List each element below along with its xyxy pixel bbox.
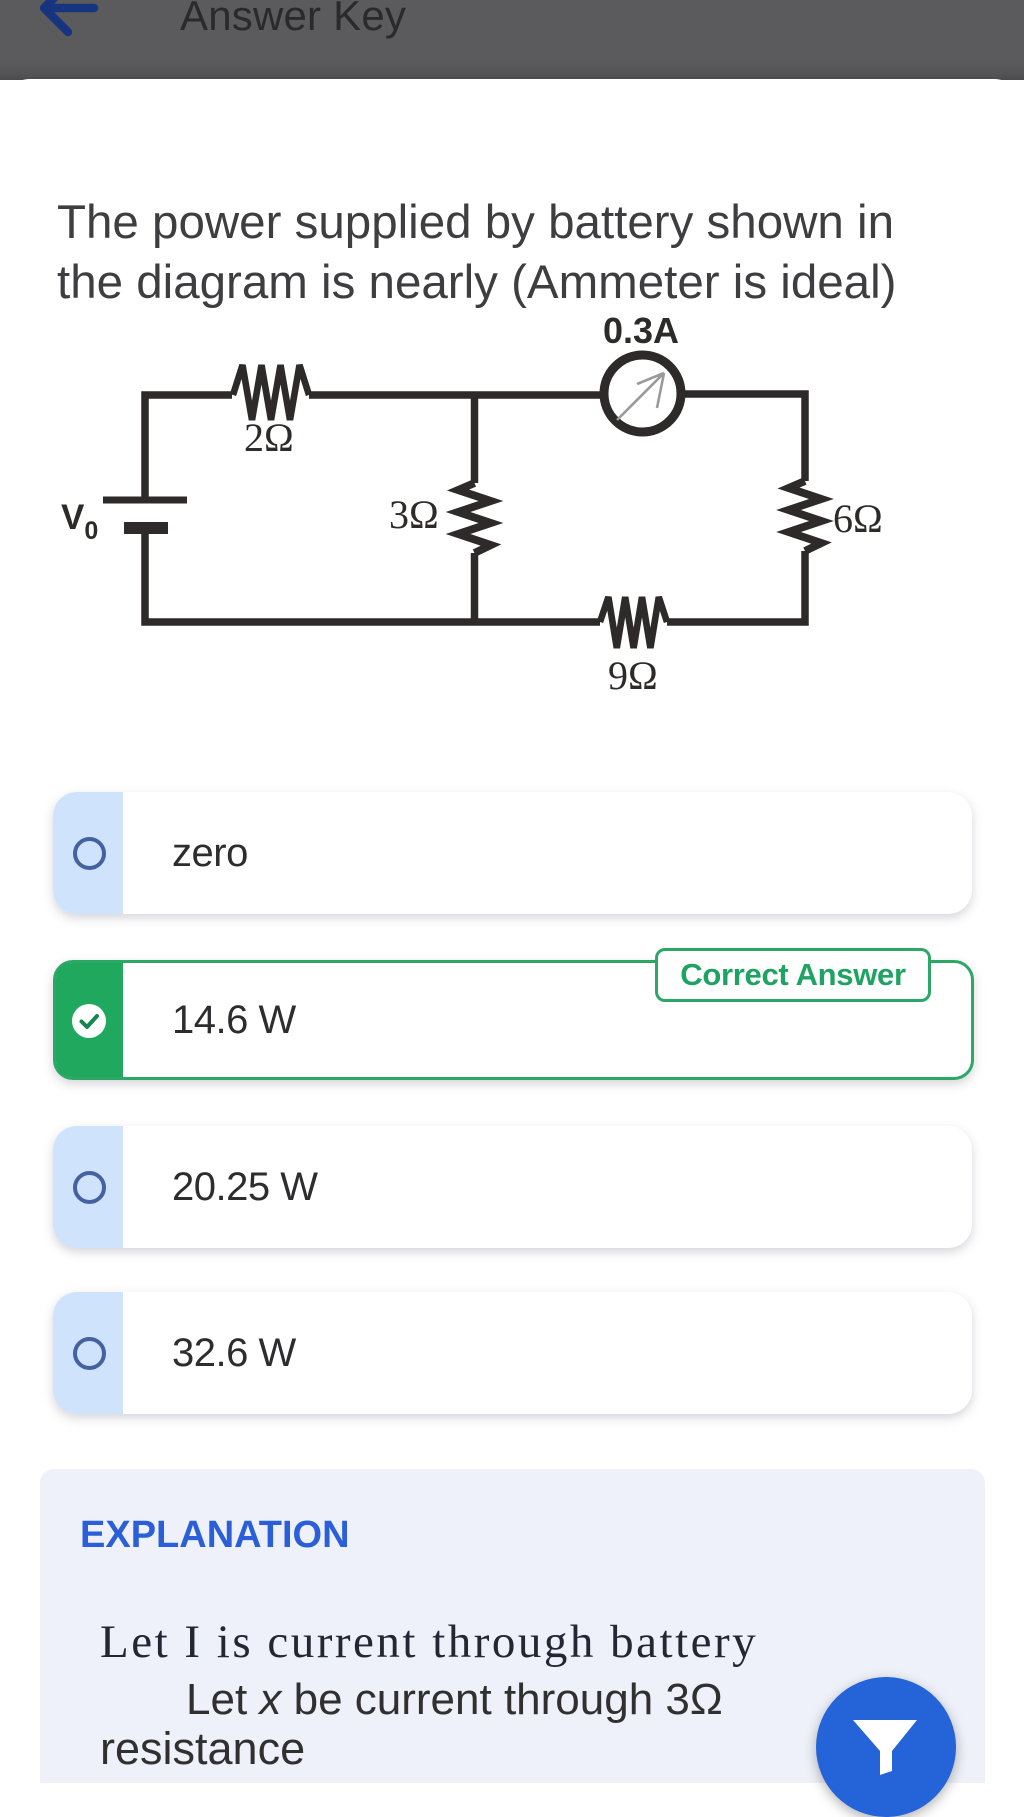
svg-text:2Ω: 2Ω: [244, 415, 294, 460]
battery V0 positive plate: [103, 497, 187, 504]
svg-text:0.3A: 0.3A: [603, 310, 679, 351]
ammeter needle: [617, 373, 664, 420]
svg-text:9Ω: 9Ω: [608, 653, 658, 698]
option 1: zero: [53, 792, 972, 914]
wire bottom-right from 6ohm to 9ohm: [667, 551, 805, 622]
resistor R4 9ohm (horizontal): [600, 597, 667, 648]
gray status/app bar area: [0, 0, 1024, 80]
question text: [57, 193, 997, 313]
ammeter A: [604, 355, 681, 432]
filter FAB: [816, 1677, 956, 1817]
svg-text:3Ω: 3Ω: [389, 492, 439, 537]
resistor R2 3ohm (vertical): [458, 483, 491, 553]
wire bottom of 3ohm branch: [471, 553, 479, 622]
wire bottom-left from 9ohm to battery: [145, 534, 600, 622]
explanation panel: [40, 1469, 985, 1783]
option 2: 14.6 W (correct): [53, 960, 974, 1080]
option 3: 20.25 W: [53, 1126, 972, 1248]
wire top-right from ammeter to right corner: [684, 394, 805, 481]
resistor R1 2ohm: [233, 365, 309, 420]
wire top-middle from 2ohm to ammeter: [309, 391, 601, 399]
wire top-left from battery to 2ohm resistor: [145, 395, 232, 500]
option 4: 32.6 W: [53, 1292, 972, 1414]
svg-text:V0: V0: [61, 498, 98, 545]
node junction top of 3ohm branch: [471, 395, 479, 483]
back arrow: [37, 0, 101, 38]
circuit schematic SVG: [0, 305, 1024, 705]
svg-text:6Ω: 6Ω: [833, 496, 883, 541]
battery V0 negative plate: [124, 522, 168, 534]
resistor R3 6ohm (vertical): [789, 481, 822, 551]
